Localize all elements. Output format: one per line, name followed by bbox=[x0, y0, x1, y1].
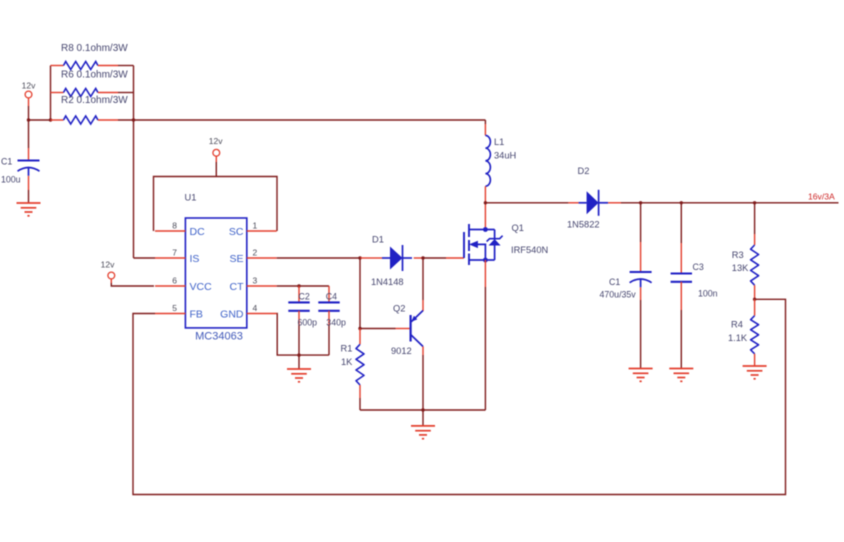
svg-text:DC: DC bbox=[190, 226, 206, 238]
svg-text:Q2: Q2 bbox=[393, 304, 405, 314]
svg-text:1K: 1K bbox=[341, 357, 353, 367]
svg-text:SE: SE bbox=[229, 253, 243, 265]
svg-text:34uH: 34uH bbox=[494, 151, 516, 161]
svg-text:C3: C3 bbox=[693, 262, 704, 272]
svg-text:MC34063: MC34063 bbox=[195, 331, 243, 343]
svg-text:C4: C4 bbox=[326, 292, 337, 302]
svg-text:R6 0.1ohm/3W: R6 0.1ohm/3W bbox=[61, 70, 128, 81]
svg-text:L1: L1 bbox=[494, 137, 504, 147]
svg-text:VCC: VCC bbox=[190, 281, 213, 293]
svg-text:Q1: Q1 bbox=[512, 223, 524, 233]
svg-text:8: 8 bbox=[172, 221, 177, 231]
svg-text:1.1K: 1.1K bbox=[728, 333, 748, 343]
svg-text:7: 7 bbox=[172, 248, 177, 258]
svg-text:12v: 12v bbox=[22, 81, 36, 91]
svg-text:340p: 340p bbox=[326, 317, 346, 327]
svg-text:100n: 100n bbox=[698, 289, 718, 299]
svg-text:C1: C1 bbox=[609, 277, 620, 287]
svg-text:1: 1 bbox=[253, 221, 258, 231]
svg-text:CT: CT bbox=[230, 281, 245, 293]
svg-text:1N5822: 1N5822 bbox=[567, 220, 600, 230]
svg-text:R4: R4 bbox=[731, 320, 743, 330]
svg-text:R8 0.1ohm/3W: R8 0.1ohm/3W bbox=[61, 43, 128, 54]
svg-text:16v/3A: 16v/3A bbox=[808, 192, 835, 202]
svg-text:13K: 13K bbox=[732, 263, 749, 273]
svg-text:R3: R3 bbox=[732, 250, 744, 260]
svg-text:R1: R1 bbox=[341, 344, 353, 354]
svg-text:C1: C1 bbox=[1, 157, 12, 167]
svg-text:4: 4 bbox=[253, 303, 258, 313]
svg-text:1N4148: 1N4148 bbox=[371, 277, 404, 287]
svg-text:D1: D1 bbox=[372, 235, 384, 245]
svg-text:GND: GND bbox=[220, 309, 244, 321]
svg-text:IRF540N: IRF540N bbox=[511, 245, 548, 255]
svg-text:12v: 12v bbox=[101, 260, 115, 270]
svg-text:5: 5 bbox=[172, 303, 177, 313]
svg-text:470u/35v: 470u/35v bbox=[600, 290, 637, 300]
svg-text:SC: SC bbox=[229, 226, 244, 238]
svg-text:100u: 100u bbox=[1, 175, 21, 185]
svg-text:C2: C2 bbox=[299, 292, 310, 302]
svg-text:FB: FB bbox=[190, 309, 203, 321]
svg-text:3: 3 bbox=[253, 276, 258, 286]
svg-text:6: 6 bbox=[172, 276, 177, 286]
svg-text:600p: 600p bbox=[298, 317, 318, 327]
svg-text:U1: U1 bbox=[185, 193, 197, 203]
svg-text:IS: IS bbox=[190, 253, 200, 265]
svg-text:12v: 12v bbox=[209, 136, 223, 146]
svg-text:9012: 9012 bbox=[391, 346, 412, 356]
svg-text:D2: D2 bbox=[578, 166, 590, 176]
svg-text:2: 2 bbox=[253, 248, 258, 258]
svg-text:R2 0.1ohm/3W: R2 0.1ohm/3W bbox=[61, 95, 128, 106]
